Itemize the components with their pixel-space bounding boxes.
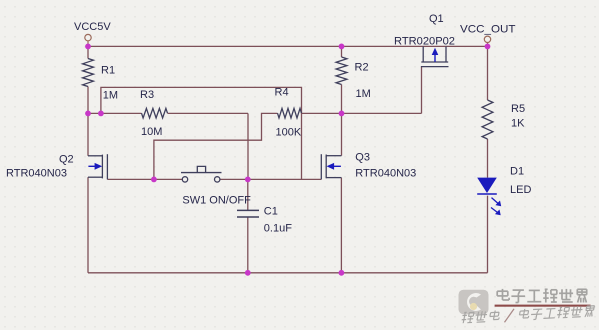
- svg-text:C1: C1: [264, 206, 278, 218]
- svg-text:0.1uF: 0.1uF: [264, 222, 292, 234]
- svg-text:10M: 10M: [141, 126, 162, 138]
- svg-text:RTR040N03: RTR040N03: [6, 167, 67, 179]
- svg-text:100K: 100K: [276, 127, 302, 139]
- svg-text:LED: LED: [510, 184, 531, 196]
- svg-text:RTR020P02: RTR020P02: [394, 36, 455, 48]
- svg-text:R4: R4: [275, 87, 289, 99]
- svg-text:R1: R1: [101, 65, 115, 77]
- svg-text:VCC_OUT: VCC_OUT: [460, 23, 516, 35]
- svg-text:Q1: Q1: [429, 13, 444, 25]
- svg-text:1M: 1M: [103, 89, 118, 101]
- svg-text:R5: R5: [511, 103, 525, 115]
- svg-text:Q2: Q2: [59, 153, 74, 165]
- svg-text:SW1 ON/OFF: SW1 ON/OFF: [182, 195, 251, 207]
- svg-text:1K: 1K: [511, 118, 525, 130]
- svg-text:VCC5V: VCC5V: [74, 21, 111, 33]
- svg-text:D1: D1: [510, 165, 524, 177]
- svg-text:1M: 1M: [356, 88, 371, 100]
- svg-text:RTR040N03: RTR040N03: [355, 167, 416, 179]
- svg-text:R2: R2: [355, 62, 369, 74]
- svg-text:Q3: Q3: [355, 151, 370, 163]
- svg-text:R3: R3: [140, 89, 154, 101]
